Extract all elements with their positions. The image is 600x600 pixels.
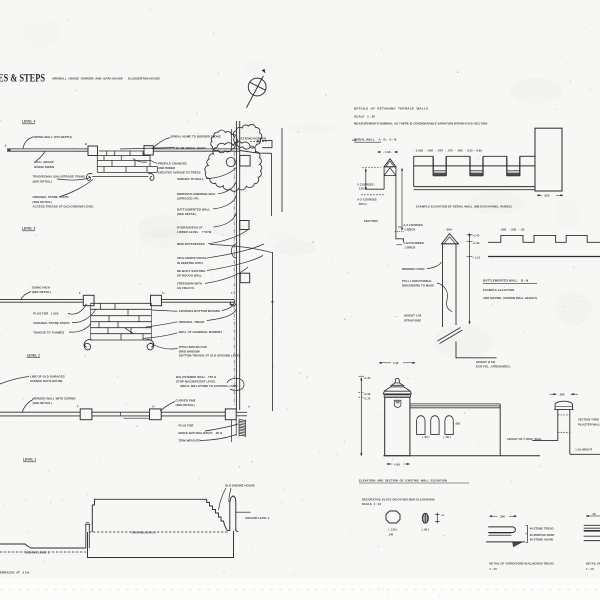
scan streak bottom xyxy=(0,589,600,591)
stone again line xyxy=(488,534,511,536)
svg-text:1 BRICK: 1 BRICK xyxy=(403,227,415,231)
svg-text:BATTLEMENTED WALL: BATTLEMENTED WALL xyxy=(177,208,210,212)
volute right of middle steps xyxy=(145,340,153,350)
svg-text:LEVEL 1: LEVEL 1 xyxy=(23,458,36,462)
level 1 wall segment 1 xyxy=(0,411,80,413)
leader arc to dimension line xyxy=(210,245,273,253)
cross dimension mark xyxy=(436,513,438,524)
svg-text:SPIRAL HOME TO BORDER STONE: SPIRAL HOME TO BORDER STONE xyxy=(171,135,221,139)
svg-text:1 : 10: 1 : 10 xyxy=(586,567,594,571)
svg-text:+1.14: +1.14 xyxy=(364,397,371,401)
svg-text:SECTION THRO: SECTION THRO xyxy=(578,418,600,422)
svg-text:PITCH SMILED FOR: PITCH SMILED FOR xyxy=(179,345,208,349)
svg-text:· 1.655 · .650 · .670 ·: · 1.655 · .650 · .670 · .570 · .655 · 2.… xyxy=(414,149,482,153)
svg-text:LEVEL 3: LEVEL 3 xyxy=(22,227,35,231)
svg-text:CREATES AVENUE TO TREES: CREATES AVENUE TO TREES xyxy=(158,171,201,175)
pillar elevation shaft xyxy=(442,244,444,327)
svg-text:PLUS FOR 1 903: PLUS FOR 1 903 xyxy=(33,312,58,316)
svg-text:EXAMPLE ELEVATION: EXAMPLE ELEVATION xyxy=(483,288,514,292)
svg-text:DECORATIVE SLOTS ON OTHER SIDE: DECORATIVE SLOTS ON OTHER SIDE ELEVATION… xyxy=(362,497,435,501)
svg-text:ORIGINAL TREAD: ORIGINAL TREAD xyxy=(179,320,205,324)
svg-text:+1.45: +1.45 xyxy=(364,376,371,380)
svg-text:SPALLWORK ROUGH: SPALLWORK ROUGH xyxy=(177,256,208,260)
pillar section inner dim line xyxy=(401,168,403,230)
pier B level 4 xyxy=(88,146,98,156)
svg-text:.29: .29 xyxy=(592,512,596,516)
svg-text:SECTION :: SECTION : xyxy=(364,219,380,223)
svg-text:(SEE DETAIL): (SEE DETAIL) xyxy=(177,212,196,216)
upper steps flight bricks xyxy=(97,151,157,172)
svg-text:MERGED WALL WITH COPING: MERGED WALL WITH COPING xyxy=(33,396,77,400)
svg-text:DETAIL OF YORKSTONE BULLNOSED: DETAIL OF YORKSTONE BULLNOSED TREAD xyxy=(489,561,553,565)
buttress bump on wall xyxy=(231,244,236,258)
svg-text:1:10 HEIGHT: 1:10 HEIGHT xyxy=(575,447,595,451)
svg-text:EXAMPLE ELEVATION OF SERIAL WA: EXAMPLE ELEVATION OF SERIAL WALL (NB EAC… xyxy=(416,205,512,209)
paper mottling xyxy=(22,17,592,359)
svg-text:LEVEL 2: LEVEL 2 xyxy=(27,353,40,357)
north arrow xyxy=(247,70,267,108)
ground line right of pilaster xyxy=(570,453,600,455)
tower cornice xyxy=(384,394,410,396)
svg-text:(SEE DETAIL): (SEE DETAIL) xyxy=(33,401,52,405)
svg-text:( .60 ): ( .60 ) xyxy=(422,435,429,439)
svg-text:GROUND LEVEL 1: GROUND LEVEL 1 xyxy=(25,550,50,554)
end pillar block xyxy=(535,128,562,191)
pier on south wall 2 xyxy=(240,221,249,230)
svg-text:1 : 10: 1 : 10 xyxy=(489,567,497,571)
svg-text:+1.30: +1.30 xyxy=(364,392,371,396)
svg-text:B: B xyxy=(85,142,87,146)
pillar break lines xyxy=(438,328,461,342)
pillar section left arm xyxy=(366,176,384,190)
svg-text:+1.45: +1.45 xyxy=(473,234,480,238)
svg-text:AS FIELD IS: AS FIELD IS xyxy=(177,286,194,290)
tree canopy xyxy=(211,130,238,153)
svg-text:HEIGHT (2 60): HEIGHT (2 60) xyxy=(476,360,507,364)
svg-text:BIRD WINDOW: BIRD WINDOW xyxy=(179,349,200,353)
svg-text:LEVEL 4: LEVEL 4 xyxy=(22,120,35,124)
svg-text:FREEBORN WITH: FREEBORN WITH xyxy=(177,282,202,286)
svg-text:COURSES BOTTOM MISSING: COURSES BOTTOM MISSING xyxy=(179,309,221,313)
oval slot hatched xyxy=(422,513,428,523)
wall corner north-east xyxy=(262,140,272,147)
svg-text:WALL AT HANDRAIL MOMENT: WALL AT HANDRAIL MOMENT xyxy=(179,330,223,334)
svg-text:OF ROUGH WALL: OF ROUGH WALL xyxy=(177,273,202,277)
svg-text:20 MORTAR JOINT: 20 MORTAR JOINT xyxy=(530,533,555,537)
wall stubs below level 1 xyxy=(231,420,233,442)
battlemented wall elevation top xyxy=(488,235,600,242)
svg-text:+ 1.10: + 1.10 xyxy=(473,256,481,260)
svg-text:.950: .950 xyxy=(543,194,550,198)
svg-text:LINE OF OLD GARAGES: LINE OF OLD GARAGES xyxy=(30,374,65,378)
section ground line west xyxy=(0,544,86,548)
svg-text:TONGUE TO THAMES: TONGUE TO THAMES xyxy=(33,331,64,335)
level 1 wall segment 3 xyxy=(161,411,225,413)
battlemented dim line xyxy=(469,233,471,324)
svg-text:GROUND LEVEL 2: GROUND LEVEL 2 xyxy=(132,531,157,535)
svg-text:STOP MAGNIFICENT LEVEL: STOP MAGNIFICENT LEVEL xyxy=(176,379,216,383)
svg-text:.145: .145 xyxy=(387,533,396,537)
svg-text:EXTEND BORDER: EXTEND BORDER xyxy=(241,136,268,140)
pilaster cap xyxy=(555,401,572,409)
section wall outline xyxy=(88,531,234,558)
svg-text:··: ·· xyxy=(395,314,397,318)
svg-text:OLD ENGINE HOUSE: OLD ENGINE HOUSE xyxy=(225,484,255,488)
svg-text:ACCESS TREADS AT OLD GROUND LE: ACCESS TREADS AT OLD GROUND LEVEL xyxy=(33,205,95,209)
shadow wedge xyxy=(513,542,522,547)
svg-text:· .690 · .530 · .65: · .690 · .530 · .65 xyxy=(499,227,525,231)
svg-text:.085: .085 xyxy=(455,421,461,425)
pillar base step xyxy=(456,342,497,358)
svg-text:TRADITIONAL BALUSTRADE TRANS: TRADITIONAL BALUSTRADE TRANS xyxy=(33,175,85,179)
level 1 wall segment 2 xyxy=(92,411,150,413)
tower cap eave edge xyxy=(383,392,412,395)
tower cap upper band xyxy=(391,383,403,385)
svg-text:ES & STEPS: ES & STEPS xyxy=(0,73,45,85)
ground level 2 dashed xyxy=(89,531,229,533)
svg-text:H: H xyxy=(153,404,155,408)
svg-text:HEIGHT OF ½ RISE WALL: HEIGHT OF ½ RISE WALL xyxy=(507,437,542,441)
pilaster shaft xyxy=(557,409,559,440)
svg-text:.125 H: .125 H xyxy=(357,187,366,191)
svg-text:BALUSTERED WALL .750 H: BALUSTERED WALL .750 H xyxy=(176,375,216,379)
svg-text:ARDWALL HOUSE GARDEN AND B: ARDWALL HOUSE GARDEN AND BATH HOUSE GLAS… xyxy=(52,77,160,81)
svg-text:SCALE 1 : 10: SCALE 1 : 10 xyxy=(362,502,382,506)
svg-text:40 STONE AGAIN: 40 STONE AGAIN xyxy=(530,537,553,541)
svg-text:GROUND LEVEL 3: GROUND LEVEL 3 xyxy=(245,516,270,520)
svg-text:1 BRICK: 1 BRICK xyxy=(403,245,415,249)
svg-text:ELEVATION AND SECTION OF E: ELEVATION AND SECTION OF EXISTING WALL E… xyxy=(359,478,447,482)
svg-text:A: A xyxy=(5,144,7,148)
pier level 3 west xyxy=(83,295,94,305)
right detail lines xyxy=(584,524,600,526)
pier level 4 east xyxy=(144,146,153,155)
coil hatch symbol xyxy=(239,420,246,438)
svg-text:MENDING OVER: MENDING OVER xyxy=(402,267,425,271)
svg-text:CURVED FINE: CURVED FINE xyxy=(176,398,196,402)
svg-text:IN KEEPING WITH: IN KEEPING WITH xyxy=(177,261,203,265)
svg-text:TRIM WEIGHTS: TRIM WEIGHTS xyxy=(179,439,201,443)
svg-text:ERRACES AT 2 1%: ERRACES AT 2 1% xyxy=(0,571,30,575)
svg-text:COPING WALL (750 DEPTH): COPING WALL (750 DEPTH) xyxy=(32,135,72,139)
tower left dim line xyxy=(360,378,362,456)
pier level 1 mid xyxy=(150,409,162,420)
svg-text:1.30: 1.30 xyxy=(392,361,399,365)
svg-text:SHRUBS TO WALL: SHRUBS TO WALL xyxy=(177,177,204,181)
dimension line with dot xyxy=(272,252,274,411)
tower cap eave slopes xyxy=(384,387,411,391)
svg-text:HYDRANGEAS AT: HYDRANGEAS AT xyxy=(177,225,203,229)
svg-text:.280: .280 xyxy=(558,392,565,396)
svg-text:STRAP SIDE: STRAP SIDE xyxy=(404,318,421,322)
pillar section band with inner triangle xyxy=(384,167,396,176)
svg-text:MEASUREMENTS NOMINAL AS THERE: MEASUREMENTS NOMINAL AS THERE IS CONSIDE… xyxy=(354,122,487,126)
svg-text:(SPRUCED UP): (SPRUCED UP) xyxy=(177,197,198,201)
garden wall base xyxy=(383,455,540,457)
svg-text:A-3 COURSES: A-3 COURSES xyxy=(357,198,376,202)
tower shaft xyxy=(385,397,410,456)
right detail dim arrow xyxy=(586,515,589,517)
svg-text:H: H xyxy=(163,291,165,295)
svg-text:2 COURSES: 2 COURSES xyxy=(357,182,373,186)
svg-text:(SEE DETAIL): (SEE DETAIL) xyxy=(176,403,195,407)
level 3 wall east segment xyxy=(162,298,235,300)
level 3 wall west segment xyxy=(0,298,83,300)
svg-text:BATTLEMENTED WALL B - N: BATTLEMENTED WALL B - N xyxy=(483,279,528,283)
svg-text:GOING DOWN: GOING DOWN xyxy=(34,165,54,169)
ground level 1 dashed xyxy=(0,551,86,553)
arched windows xyxy=(417,416,425,435)
pillar dim lines xyxy=(365,169,367,190)
svg-text:PILASTER WALL: PILASTER WALL xyxy=(578,422,600,426)
tread bracket xyxy=(527,525,529,542)
pillar elevation cap xyxy=(442,234,459,244)
wall centreline dash-dot xyxy=(233,152,235,406)
svg-text:EXIT FGL ( PRESUMED ): EXIT FGL ( PRESUMED ) xyxy=(476,365,511,369)
svg-text:LOWER LEVEL 7 50 W: LOWER LEVEL 7 50 W xyxy=(177,230,212,234)
serial wall elevation crenellation xyxy=(414,156,535,189)
ground line left of pilaster xyxy=(532,440,558,442)
svg-text:DETAIL OF Y: DETAIL OF Y xyxy=(586,561,600,565)
svg-text:.550 H: .550 H xyxy=(357,202,366,206)
level 1 wall stub east xyxy=(236,411,247,413)
svg-text:( .06 ): ( .06 ) xyxy=(422,527,429,531)
volute left of middle steps xyxy=(84,340,92,350)
bracket rail under upper steps xyxy=(92,175,148,177)
svg-text:WINTER FLOWERING MAG: WINTER FLOWERING MAG xyxy=(177,192,216,196)
junction curl level 3 xyxy=(230,302,236,307)
svg-text:BRICK NATURALISTICS .90 H: BRICK NATURALISTICS .90 H xyxy=(179,431,223,435)
svg-text:BRICKWORK TO MAKE: BRICKWORK TO MAKE xyxy=(402,284,434,288)
svg-text:SMALL MILLSTONE TO EXISTING LA: SMALL MILLSTONE TO EXISTING LAWN xyxy=(180,384,237,388)
lower step line xyxy=(486,541,525,543)
svg-text:.290: .290 xyxy=(499,514,506,518)
tree trunk circle xyxy=(226,158,235,167)
svg-text:· 1.90 ·: · 1.90 · xyxy=(383,150,392,154)
tread profile xyxy=(488,527,515,533)
middle steps flight bricks xyxy=(91,303,152,340)
svg-text:· .560 ·: · .560 · xyxy=(444,227,453,231)
svg-text:NEW BUTTRESSES: NEW BUTTRESSES xyxy=(177,242,205,246)
garden wall right edge xyxy=(499,404,501,456)
crenel shadow strokes xyxy=(433,173,446,176)
plan wall running south xyxy=(235,121,237,410)
svg-text:C-M ROUNDED: C-M ROUNDED xyxy=(403,241,423,245)
svg-text:0.60: 0.60 xyxy=(394,462,401,466)
mortar joint hatch xyxy=(489,533,511,535)
section chimney xyxy=(228,496,239,532)
tower shield emblem xyxy=(394,400,401,407)
level 4 wall east segment xyxy=(153,148,240,150)
svg-text:AND WIDER: AND WIDER xyxy=(158,166,176,170)
svg-text:SERIAL WALL A - D , A - N: SERIAL WALL A - D , A - N xyxy=(354,138,396,142)
svg-text:+1.30: +1.30 xyxy=(473,241,480,245)
svg-text:HEIGHT 1.85: HEIGHT 1.85 xyxy=(404,313,422,317)
pier level 3 east xyxy=(151,295,162,305)
battlemented wall base line xyxy=(488,256,600,258)
svg-text:PULL LONGITUDINAL: PULL LONGITUDINAL xyxy=(402,279,432,283)
svg-text:AVENUE BATH-HOUSE: AVENUE BATH-HOUSE xyxy=(30,379,63,383)
svg-text:PROFILE CHANGED: PROFILE CHANGED xyxy=(158,161,187,165)
pillar section cap triangle xyxy=(384,159,396,167)
svg-text:PLUS FOR: PLUS FOR xyxy=(179,424,195,428)
leader into tree xyxy=(231,129,233,149)
tower cap finial xyxy=(395,378,399,382)
pier on south wall 1 xyxy=(240,155,250,166)
svg-text:GOING HIGH: GOING HIGH xyxy=(32,286,50,290)
leader loop over wall xyxy=(227,378,244,390)
pier level 1 east junction xyxy=(225,409,236,420)
svg-text:(SEE DETAIL): (SEE DETAIL) xyxy=(32,290,51,294)
svg-text:PLUM TREES QUIET: PLUM TREES QUIET xyxy=(176,146,206,150)
octagon slot xyxy=(386,511,400,523)
section plateau profile xyxy=(92,499,227,532)
pier on south wall 3 xyxy=(240,273,250,283)
pier level 1 west xyxy=(80,409,92,420)
svg-text:40 STONE TREAD: 40 STONE TREAD xyxy=(530,526,554,530)
pillar section right shaft xyxy=(396,176,404,242)
volute left of upper steps xyxy=(86,173,92,180)
garden wall coping lines xyxy=(410,403,500,405)
svg-text:( .135 ): ( .135 ) xyxy=(388,527,397,531)
level 4 wall west segment xyxy=(7,148,88,150)
volute right of upper steps xyxy=(148,173,154,180)
svg-text:A-3 COURSES: A-3 COURSES xyxy=(403,223,422,227)
svg-text:(SEE DETAIL): (SEE DETAIL) xyxy=(33,200,52,204)
svg-text:BOTTOM TREADS AT OLD GROUND LE: BOTTOM TREADS AT OLD GROUND LEVEL xyxy=(179,354,241,358)
svg-text:RE-BUILT EXISTING: RE-BUILT EXISTING xyxy=(177,269,206,273)
svg-text:ORIGINAL STONE STEPS: ORIGINAL STONE STEPS xyxy=(33,321,69,325)
section small pillar xyxy=(85,523,91,548)
svg-text:AND SHOWN (SHOWN WALL HEIGHT): AND SHOWN (SHOWN WALL HEIGHT) xyxy=(483,296,537,300)
svg-text:( .60 ): ( .60 ) xyxy=(444,435,451,439)
svg-text:SCALE 1 : 20: SCALE 1 : 20 xyxy=(354,115,375,119)
ground level 3 tick and text xyxy=(236,511,251,513)
svg-text:DETAILS OF RETAINING TERRAC: DETAILS OF RETAINING TERRACE WALLS xyxy=(354,106,428,110)
svg-text:(SEE DETAIL): (SEE DETAIL) xyxy=(33,179,52,183)
